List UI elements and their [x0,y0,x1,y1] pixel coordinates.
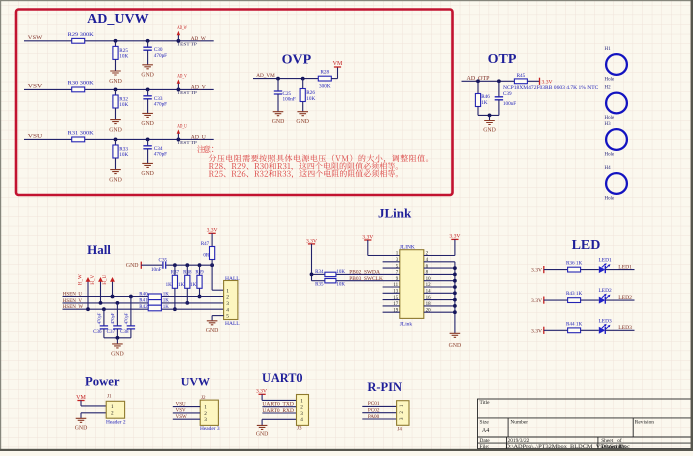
wire pin19 [383,311,400,313]
svg-text:11: 11 [393,283,398,288]
svg-text:VSU: VSU [176,402,186,407]
power port H_U [103,274,115,296]
wire [262,418,296,420]
svg-text:1K: 1K [163,299,170,304]
junction [116,336,120,340]
svg-text:4: 4 [226,307,229,313]
svg-text:H_V: H_V [91,274,96,284]
svg-text:R36 1K: R36 1K [566,261,583,267]
window edge bottom [0,449,693,451]
svg-text:10K: 10K [306,96,315,102]
ground [256,425,269,437]
wire UART0_TXD [262,406,296,408]
power port VM [76,395,86,401]
junction [301,77,305,81]
window edge right [691,0,693,451]
svg-text:15: 15 [393,296,399,301]
svg-text:R39: R39 [195,270,204,275]
resistor R34 [315,270,345,277]
wire [81,412,106,414]
svg-text:1: 1 [204,405,207,411]
resistor R26 [300,89,315,103]
svg-text:20: 20 [426,308,432,313]
wire [302,79,304,89]
ground [141,163,154,177]
svg-text:10K: 10K [119,152,128,158]
wire [147,41,149,47]
junction [173,263,177,267]
svg-text:100nF: 100nF [503,101,516,107]
svg-text:GND: GND [109,79,122,85]
wire [498,100,500,116]
ground [483,121,496,134]
svg-text:VSW: VSW [176,415,187,420]
wire AD_OTP [462,80,540,82]
svg-text:HSEN_W: HSEN_W [63,305,84,310]
svg-text:R34: R34 [315,270,324,275]
svg-text:GND: GND [256,432,269,438]
svg-text:19: 19 [393,308,399,313]
wire pin5 [383,267,400,269]
junction [453,266,457,270]
title block frame [478,399,693,449]
wire PC01 [362,405,396,407]
power port 3.3V [306,238,317,244]
wire GND rail [454,262,456,334]
wire pin17 [383,305,400,307]
resistor R41 [139,299,169,306]
svg-text:HSEN_V: HSEN_V [63,299,83,304]
resistor R28 [318,70,331,90]
svg-text:10K: 10K [336,270,345,275]
svg-text:GND: GND [449,343,462,349]
ground [141,65,154,79]
wire [130,329,132,338]
svg-text:R38: R38 [183,270,192,275]
ground [109,170,122,184]
svg-text:PB02_SWDA: PB02_SWDA [349,270,380,276]
wire pin16 [424,299,455,301]
power port 3.3V [256,388,267,394]
svg-text:1: 1 [111,404,114,410]
svg-text:LED1: LED1 [618,264,632,270]
svg-text:Hole: Hole [605,78,616,83]
svg-text:Hall: Hall [87,242,111,257]
svg-text:C35: C35 [159,257,168,263]
wire [302,102,304,112]
capacitor C33 [143,96,167,108]
wire [147,99,149,114]
svg-text:470pF: 470pF [110,312,115,324]
svg-text:13: 13 [393,290,399,295]
svg-text:PC01: PC01 [368,401,380,407]
svg-text:3.3V: 3.3V [531,268,542,274]
junction [177,138,181,142]
ground [75,418,88,431]
wire PA00 [362,418,396,420]
svg-text:H2: H2 [605,86,612,91]
ground [141,113,154,127]
junction [86,307,90,311]
LED LED2 [599,288,612,304]
ground [111,344,124,358]
connector J2 [200,400,218,425]
svg-text:3.3V: 3.3V [449,234,460,240]
wire HSEN row [63,302,224,304]
svg-text:470pF: 470pF [154,102,167,108]
junction [453,279,457,283]
wire rail [104,337,131,339]
resistor R45 [514,73,527,84]
svg-text:OVP: OVP [282,53,312,68]
wire [115,108,117,120]
wire [116,303,118,326]
svg-text:3.3V: 3.3V [256,388,267,394]
junction [453,273,457,277]
resistor R36 [566,261,583,272]
power port VM [333,61,343,67]
wire pin6 [424,267,455,269]
wire AD_VM [253,78,319,80]
svg-text:1K: 1K [481,100,488,106]
power port 3.3V [449,234,460,240]
svg-text:1K: 1K [163,292,170,297]
hole H3 [606,129,627,150]
wire [186,288,188,303]
hole H4 [606,173,627,194]
power port AD_U [177,124,187,139]
ground [109,120,122,134]
wire [331,78,337,80]
svg-text:1: 1 [300,398,303,404]
wire [174,288,176,309]
power port GND left [126,262,141,269]
junction [453,304,457,308]
wire [147,89,149,95]
wire [147,139,149,145]
svg-text:PB03_SWCLK: PB03_SWCLK [349,276,383,282]
wire pin10 [424,280,455,282]
connector HALL [224,281,238,320]
svg-text:H_U: H_U [103,274,108,284]
svg-text:HSEN_U: HSEN_U [63,293,83,298]
wire VSV [173,412,200,414]
connector J4 [397,401,409,426]
svg-text:OTP: OTP [488,52,517,67]
capacitor C37 [107,312,122,335]
svg-text:H4: H4 [605,166,612,171]
svg-text:10K: 10K [119,102,128,108]
resistor R46 [475,94,490,107]
svg-text:2: 2 [204,411,207,417]
note text line4 [209,170,398,178]
wire [199,265,201,275]
resistor R33 [113,145,129,158]
svg-text:H1: H1 [605,47,612,52]
svg-text:GND: GND [75,425,88,431]
svg-text:3.3V: 3.3V [531,298,542,304]
connector JLINK [400,250,424,319]
wire [605,269,634,271]
wire [141,264,162,266]
resistor R25 [113,46,129,59]
svg-text:18: 18 [426,302,432,307]
wire [544,269,568,271]
resistor R31 [68,131,94,142]
ground [206,321,219,334]
svg-text:R37: R37 [171,270,180,275]
junction [210,263,214,267]
junction [114,39,118,43]
resistor R38 [178,270,192,288]
wire [130,297,132,326]
junction [453,298,457,302]
wire [147,50,149,65]
svg-text:R42: R42 [139,305,148,310]
svg-text:R35: R35 [315,283,324,288]
wire pin15 [383,299,400,301]
svg-text:1K: 1K [178,283,185,288]
power port H_V [91,274,103,302]
junction [453,310,457,314]
power port 3.3V [531,327,544,335]
svg-text:GND: GND [109,177,122,183]
svg-text:AD_VM: AD_VM [256,73,275,79]
svg-text:R30 300K: R30 300K [68,81,94,87]
svg-text:R40: R40 [139,292,148,297]
wire UART0_RXD [262,412,296,414]
resistor R39 [190,270,204,288]
wire VSW [173,418,200,420]
svg-text:VSW: VSW [28,35,43,41]
power port AD_V [177,74,187,89]
junction [198,295,202,299]
wire [544,299,568,301]
svg-text:R47: R47 [201,242,210,247]
wire pin8 [424,273,455,275]
svg-text:2: 2 [300,405,303,411]
junction [198,263,202,267]
svg-text:Hole: Hole [605,153,616,158]
wire [115,89,117,95]
svg-text:300K: 300K [319,83,331,89]
junction [453,291,457,295]
svg-text:R44 1K: R44 1K [566,321,583,327]
power port 3.3V [207,228,218,234]
junction [173,307,177,311]
wire HSEN row [63,308,224,310]
wire pin20 [424,311,455,313]
svg-text:R28: R28 [320,70,329,76]
note rectangle [16,10,453,196]
power port 3.3V [531,297,544,305]
svg-text:GND: GND [126,263,139,269]
connector J3 [297,395,309,426]
junction [488,114,492,118]
svg-text:GND: GND [141,121,154,127]
svg-text:VSV: VSV [176,409,186,414]
wire [103,329,105,338]
wire [605,329,634,331]
svg-text:VSV: VSV [28,84,43,90]
svg-text:3: 3 [204,417,207,423]
hole H2 [606,93,627,114]
svg-text:1K: 1K [163,305,170,310]
svg-text:UART0: UART0 [262,371,303,385]
hole H1 [606,54,627,75]
svg-text:R41: R41 [139,299,148,304]
svg-text:JLink: JLink [378,205,412,220]
svg-text:UVW: UVW [181,374,210,388]
resistor R32 [113,95,129,108]
wire VSU row [24,138,214,140]
junction [116,301,120,305]
wire pin4 [424,261,455,263]
svg-text:2: 2 [111,411,114,417]
svg-text:C36: C36 [93,330,102,335]
wire pin12 [424,286,455,288]
svg-text:R45: R45 [517,73,526,79]
svg-text:470pF: 470pF [123,312,128,324]
svg-text:UART0_TXD: UART0_TXD [262,402,294,408]
wire pin14 [424,292,455,294]
wire VSU [173,406,200,408]
connector J1 [106,401,124,418]
wire [147,149,149,164]
wire [211,260,213,291]
junction [99,301,103,305]
capacitor C35 [151,257,168,273]
wire [489,115,491,120]
svg-text:16: 16 [426,296,432,301]
svg-text:LED2: LED2 [618,295,632,301]
wire pin1 [368,255,400,257]
svg-text:4: 4 [300,417,303,423]
svg-text:C38: C38 [120,330,129,335]
svg-text:R29 300K: R29 300K [68,32,94,38]
power port 3.3V [362,235,373,241]
svg-text:UART0_RXD: UART0_RXD [262,408,294,414]
svg-text:1K: 1K [166,283,173,288]
svg-text:470pF: 470pF [154,53,167,59]
note text line1 [197,145,213,153]
svg-text:LED1: LED1 [599,258,612,264]
wire [605,299,634,301]
LED LED1 [599,258,612,274]
capacitor C25 [274,91,296,103]
wire pin9 [312,280,326,282]
resistor R35 [315,279,345,288]
svg-text:10K: 10K [119,54,128,60]
wire [115,158,117,170]
svg-text:R-PIN: R-PIN [367,380,402,394]
svg-text:470pF: 470pF [154,152,167,158]
svg-text:17: 17 [393,302,399,307]
svg-text:R43 1K: R43 1K [566,291,583,297]
svg-text:H_W: H_W [79,274,84,285]
svg-text:PC02: PC02 [368,408,380,414]
svg-text:LED2: LED2 [599,288,612,294]
resistor R29 [68,32,94,43]
power port 3.3V [540,78,553,86]
window edge top [0,0,693,1]
wire [498,81,500,97]
junction [177,39,181,43]
svg-text:NCP18XM472F03RB 0603 4.7K 1% N: NCP18XM472F03RB 0603 4.7K 1% NTC [503,85,599,91]
capacitor C36 [93,312,108,335]
junction [177,88,181,92]
junction [146,138,150,142]
LED LED3 [599,318,612,334]
svg-text:Title: Title [480,400,491,406]
svg-text:GND: GND [109,127,122,133]
power port 3.3V [531,266,544,274]
wire PC02 [362,412,396,414]
svg-text:Hole: Hole [605,116,616,121]
svg-text:LED: LED [572,238,601,253]
wire pin3 [383,261,400,263]
wire [581,329,599,331]
svg-text:3: 3 [300,411,303,417]
wire VSV row [24,88,214,90]
wire [116,338,118,344]
resistor R47 [201,242,215,259]
svg-text:100nF: 100nF [283,97,296,103]
svg-text:GND: GND [483,127,496,133]
wire pin2 [424,255,455,257]
svg-text:C37: C37 [107,330,116,335]
svg-text:Size: Size [480,419,490,425]
wire [186,265,188,275]
wire [581,269,599,271]
svg-text:470pF: 470pF [96,312,101,324]
wire [477,81,479,93]
svg-text:JLink: JLink [400,321,413,327]
wire [261,394,263,400]
junction [129,295,133,299]
ground [109,71,122,85]
wire pin5 [212,315,224,317]
ground [296,112,309,126]
wire HSEN row [63,296,224,298]
svg-text:GND: GND [111,351,124,357]
wire [478,114,499,116]
wire [115,41,117,47]
wire [211,233,213,246]
resistor R40 [139,292,169,299]
note text line2 [209,154,428,162]
svg-text:GND: GND [141,171,154,177]
svg-text:10: 10 [426,277,432,282]
wire pin7 [312,273,326,275]
junction [310,273,314,277]
svg-text:5: 5 [226,314,229,320]
svg-text:14: 14 [426,290,432,295]
svg-text:3: 3 [226,301,229,307]
wire [174,265,176,275]
svg-text:TEST TP: TEST TP [177,42,198,47]
wire [116,329,118,338]
svg-text:C39: C39 [503,91,512,97]
svg-text:J3: J3 [297,427,302,432]
wire [115,59,117,71]
svg-text:AD_UVW: AD_UVW [87,12,148,27]
svg-text:HALL: HALL [225,321,240,327]
svg-text:TEST TP: TEST TP [177,140,198,145]
wire [103,309,105,326]
svg-text:GND: GND [296,119,309,125]
wire [477,107,479,116]
